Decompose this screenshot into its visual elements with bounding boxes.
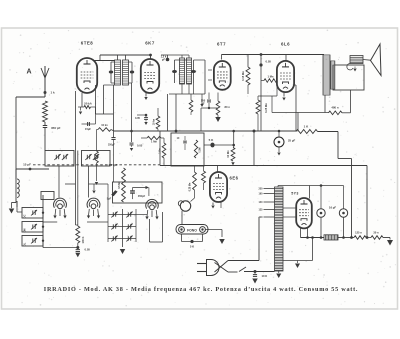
svg-text:450pF: 450pF: [138, 195, 146, 198]
svg-text:pF: pF: [201, 102, 205, 106]
svg-text:0.5 Mn: 0.5 Mn: [118, 181, 121, 189]
svg-text:5 K: 5 K: [209, 138, 215, 142]
svg-text:140: 140: [259, 201, 264, 204]
svg-text:6TE8: 6TE8: [81, 41, 94, 46]
svg-text:0.05: 0.05: [135, 116, 141, 120]
svg-text:1 Mn: 1 Mn: [151, 140, 157, 144]
svg-text:10 K: 10 K: [262, 274, 268, 278]
svg-text:50 kA: 50 kA: [84, 101, 91, 105]
svg-text:15 pF: 15 pF: [23, 163, 31, 167]
svg-text:1 K: 1 K: [304, 125, 310, 129]
svg-text:350 pF: 350 pF: [51, 126, 61, 130]
svg-text:10 kn: 10 kn: [153, 118, 156, 125]
svg-text:A: A: [26, 69, 31, 76]
svg-text:15µF: 15µF: [85, 127, 91, 131]
svg-text:5pF: 5pF: [107, 198, 112, 201]
svg-text:480 n: 480 n: [331, 106, 338, 110]
svg-text:6T7: 6T7: [217, 42, 226, 47]
svg-text:1 k: 1 k: [51, 91, 56, 95]
svg-text:OC: OC: [24, 214, 27, 218]
svg-text:1 Mn: 1 Mn: [268, 75, 274, 79]
svg-text:0.15 MA: 0.15 MA: [241, 71, 245, 81]
svg-text:125 n: 125 n: [355, 231, 362, 235]
svg-text:30 n: 30 n: [373, 231, 379, 235]
svg-text:250µF: 250µF: [108, 143, 115, 146]
svg-text:1 Kn: 1 Kn: [159, 148, 162, 154]
svg-text:0.05: 0.05: [85, 248, 91, 252]
svg-text:16 µF: 16 µF: [329, 206, 336, 210]
svg-text:pF: pF: [162, 58, 166, 62]
svg-text:OL: OL: [24, 242, 27, 246]
svg-text:IRRADIO - Mod. AK 38 - Med: IRRADIO - Mod. AK 38 - Media frequenza 4…: [44, 286, 358, 293]
svg-text:80 n: 80 n: [225, 105, 231, 109]
svg-text:100 K: 100 K: [81, 236, 85, 243]
svg-text:0.25 Mn: 0.25 Mn: [189, 182, 192, 191]
svg-text:OM: OM: [24, 228, 27, 232]
svg-text:125: 125: [259, 209, 264, 212]
svg-text:0.5M: 0.5M: [200, 147, 202, 152]
svg-text:6L6: 6L6: [281, 42, 290, 47]
svg-text:0.25 MA: 0.25 MA: [264, 103, 268, 113]
svg-text:6E6: 6E6: [230, 176, 239, 181]
svg-text:5 K: 5 K: [190, 245, 194, 249]
svg-text:FONO: FONO: [187, 229, 197, 233]
svg-text:5Y3: 5Y3: [291, 192, 299, 196]
svg-text:110: 110: [259, 216, 264, 219]
svg-text:25 µF: 25 µF: [288, 139, 295, 143]
svg-text:10 Mn: 10 Mn: [226, 150, 230, 158]
svg-text:0.05: 0.05: [137, 144, 143, 148]
svg-text:6K7: 6K7: [145, 41, 155, 46]
svg-text:250: 250: [259, 188, 264, 191]
svg-text:10 kn: 10 kn: [101, 124, 108, 127]
svg-text:0.05: 0.05: [266, 60, 272, 64]
svg-text:160: 160: [259, 193, 264, 196]
